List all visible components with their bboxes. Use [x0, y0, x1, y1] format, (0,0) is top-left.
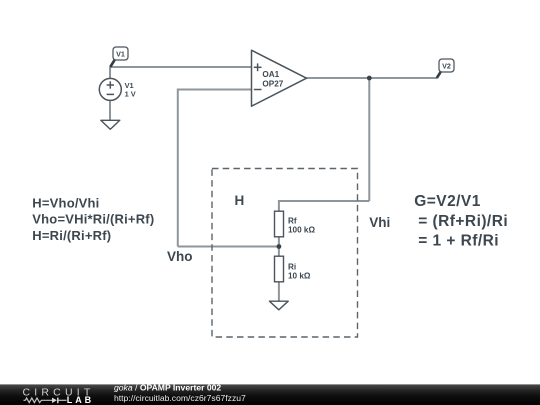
svg-text:V1: V1	[116, 50, 125, 59]
wire: feedback horizontal to Rf top	[279, 200, 369, 202]
svg-text:Vhi: Vhi	[369, 215, 390, 230]
svg-text:Vho: Vho	[167, 249, 193, 264]
junction between Rf and Ri	[277, 244, 282, 249]
dashed box H block	[212, 169, 358, 338]
svg-text:goka / OPAMP Inverter 002: goka / OPAMP Inverter 002	[114, 382, 221, 392]
svg-text:= (Rf+Ri)/Ri: = (Rf+Ri)/Ri	[418, 213, 508, 230]
node V1 label	[110, 47, 128, 67]
svg-text:10 kΩ: 10 kΩ	[288, 271, 311, 280]
svg-text:1 V: 1 V	[125, 89, 136, 98]
svg-text:Rf: Rf	[288, 217, 297, 226]
svg-text:H=Vho/Vhi: H=Vho/Vhi	[32, 195, 99, 210]
annotation left equations	[32, 195, 154, 243]
wire: Rf top lead	[278, 200, 280, 212]
wire: Vho vertical	[177, 89, 179, 247]
svg-text:http://circuitlab.com/cz6r7s67: http://circuitlab.com/cz6r7s67fzzu7	[114, 393, 246, 403]
node V2 label	[437, 59, 454, 78]
svg-text:= 1 + Rf/Ri: = 1 + Rf/Ri	[418, 232, 499, 249]
wire: V1 source top lead	[109, 67, 111, 79]
svg-text:OA1: OA1	[262, 70, 279, 79]
wire: Rf bottom lead / Ri top lead	[278, 237, 280, 257]
svg-text:H: H	[235, 193, 245, 208]
svg-text:LAB: LAB	[67, 395, 94, 405]
annotation right equations	[414, 193, 508, 249]
label V1 value	[125, 81, 136, 99]
junction on output net	[367, 76, 372, 81]
wire: V1 node to op-amp + input	[110, 66, 252, 68]
wire: feedback vertical from output junction	[368, 78, 370, 201]
resistor Rf	[275, 211, 316, 237]
footer bar	[0, 384, 540, 405]
voltage source V1	[99, 78, 121, 100]
ground (under Ri)	[269, 301, 288, 310]
svg-text:100 kΩ: 100 kΩ	[288, 225, 315, 234]
wire: feedback node to op-amp - input	[178, 89, 252, 91]
ground (under V1)	[101, 120, 120, 129]
svg-text:H=Ri/(Ri+Rf): H=Ri/(Ri+Rf)	[32, 228, 111, 243]
wire: op-amp output to V2 node	[307, 77, 438, 79]
svg-text:Ri: Ri	[288, 263, 296, 272]
footer CircuitLab logo	[23, 386, 95, 405]
resistor Ri	[275, 256, 311, 282]
wire: Vho horizontal to Rf/Ri junction	[178, 246, 279, 248]
svg-text:G=V2/V1: G=V2/V1	[414, 193, 480, 210]
svg-text:Vho=VHi*Ri/(Ri+Rf): Vho=VHi*Ri/(Ri+Rf)	[32, 212, 154, 227]
wire: Ri bottom lead to ground	[278, 282, 280, 302]
op-amp OA1	[252, 50, 307, 106]
svg-text:V2: V2	[442, 62, 451, 71]
svg-text:OP27: OP27	[262, 79, 283, 88]
wire: V1 source bottom lead to ground	[109, 100, 111, 120]
